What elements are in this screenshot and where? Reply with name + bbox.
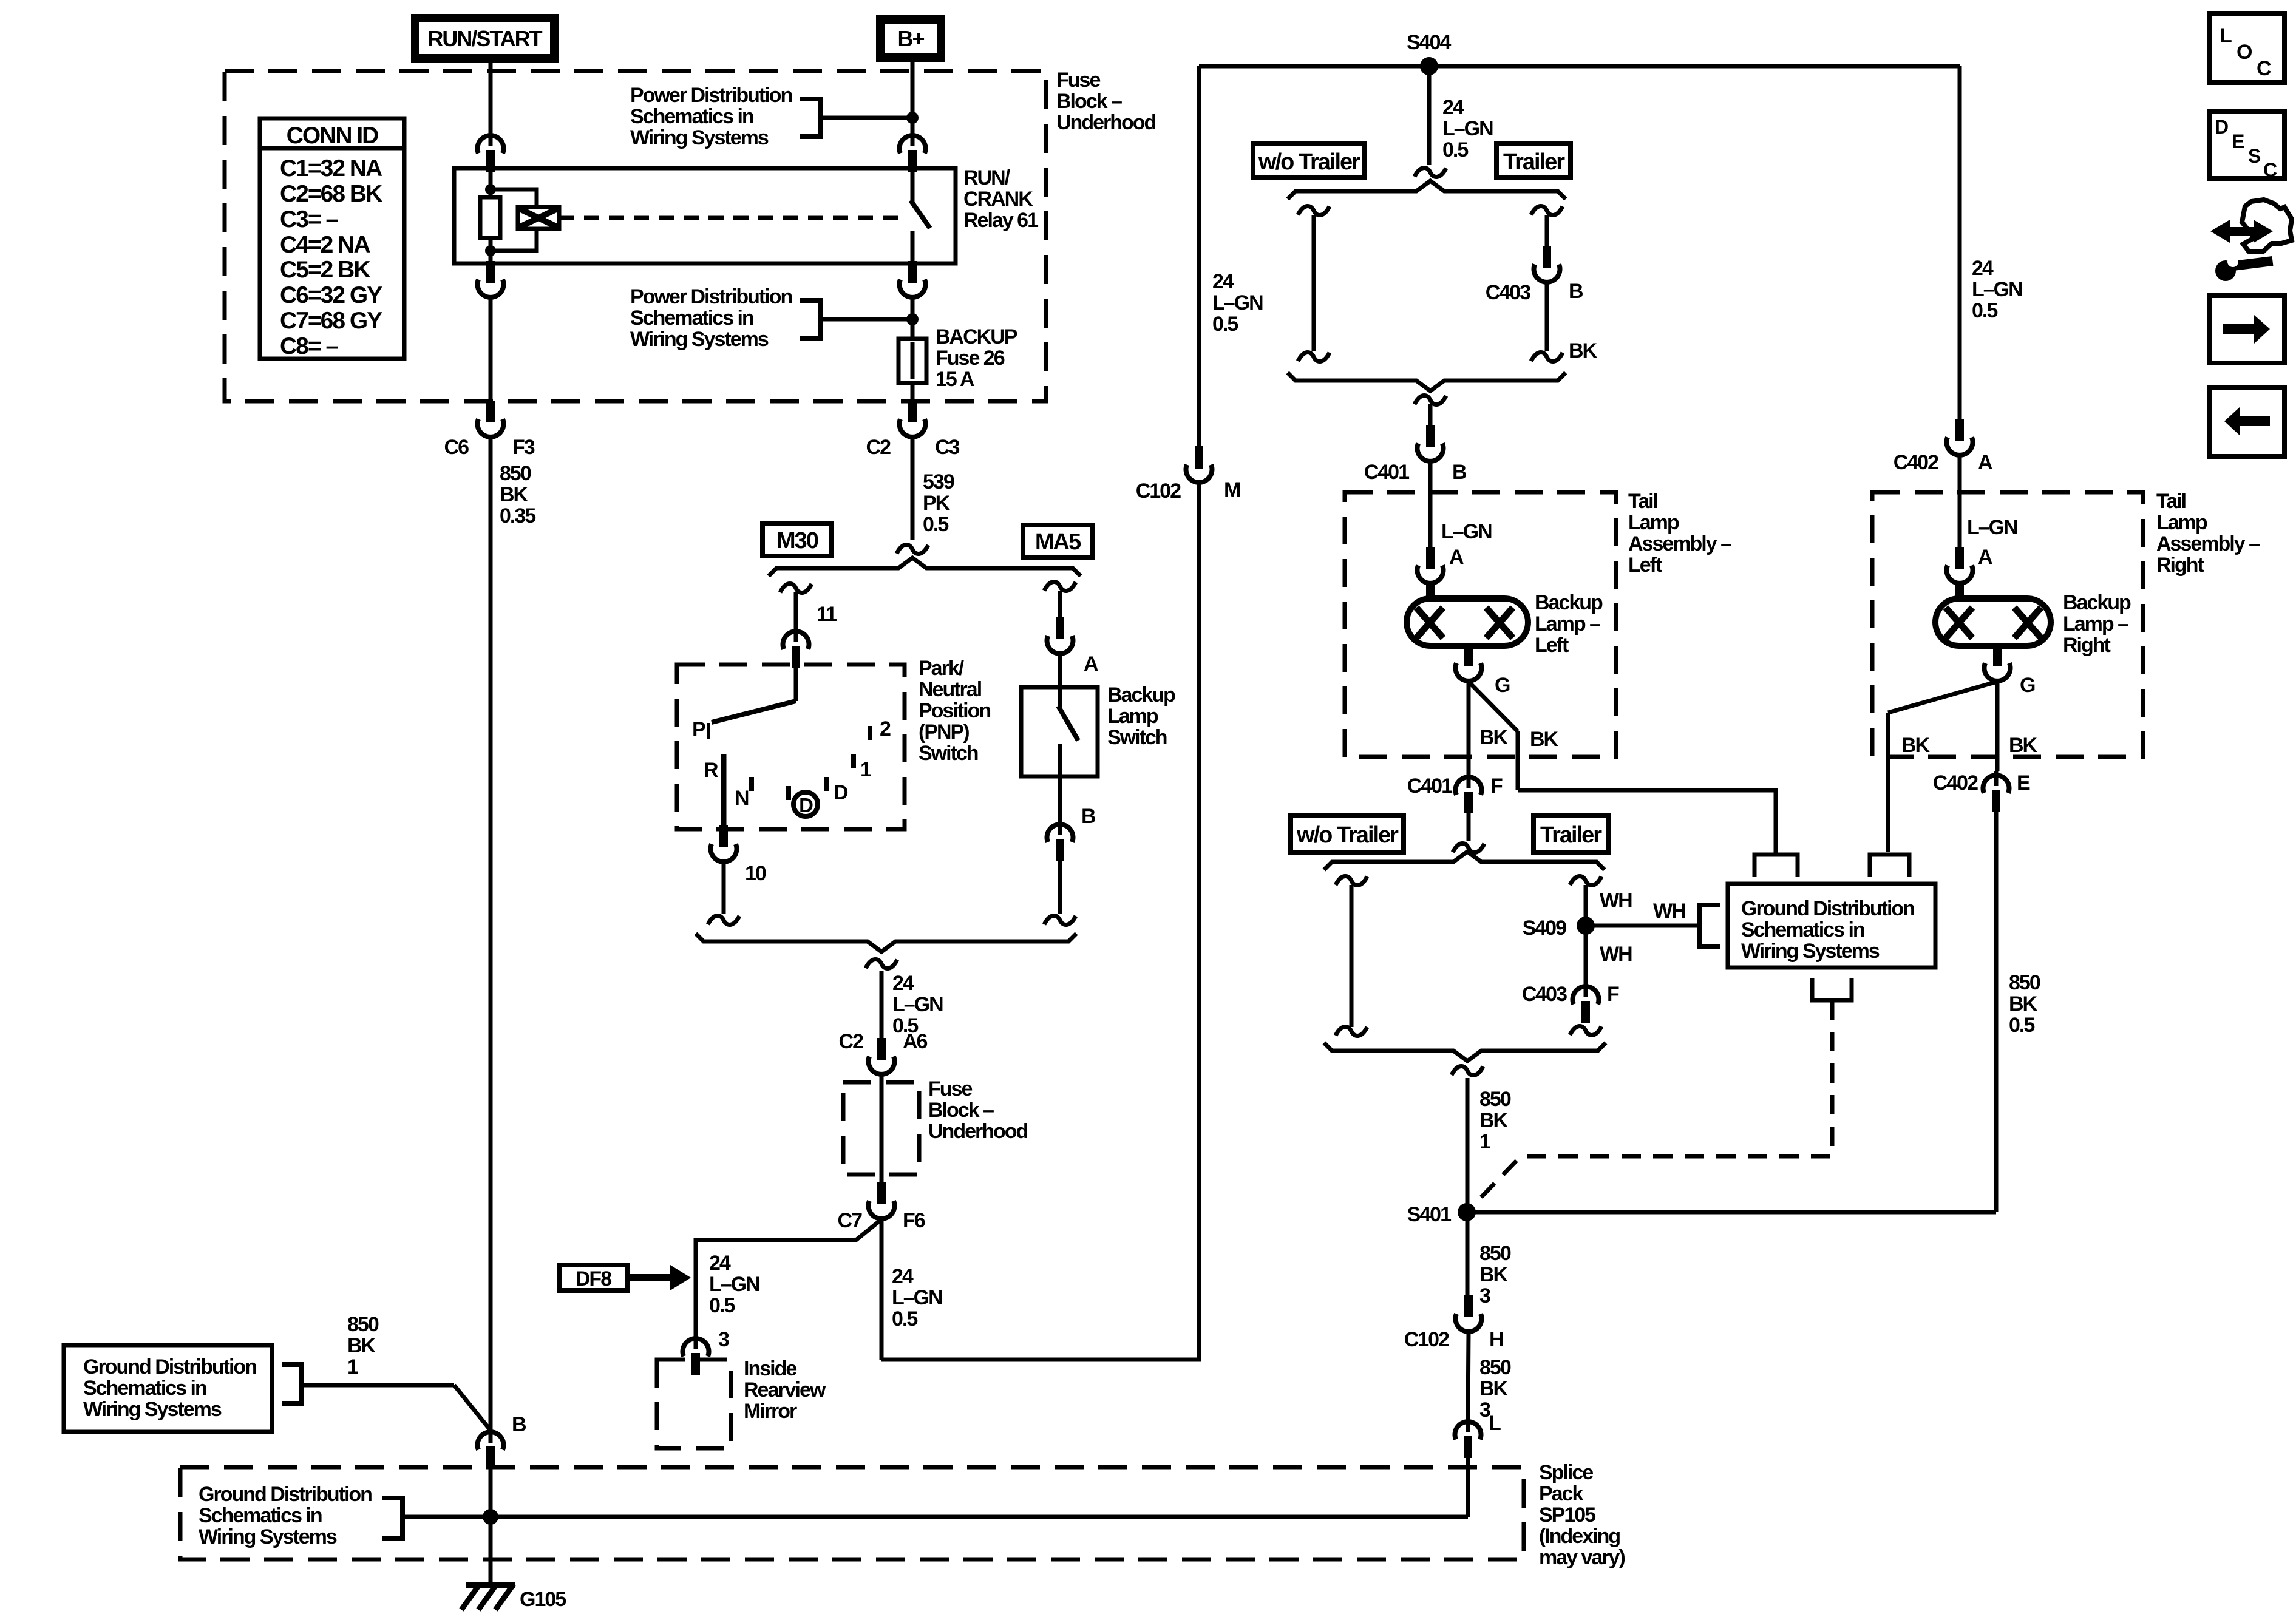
svg-text:A: A xyxy=(1978,451,1992,474)
svg-text:E: E xyxy=(2017,771,2030,795)
svg-text:C3= –: C3= – xyxy=(280,206,338,232)
svg-text:D: D xyxy=(2215,116,2229,138)
svg-text:24: 24 xyxy=(892,972,914,995)
svg-text:BK: BK xyxy=(2009,992,2038,1015)
svg-text:A: A xyxy=(1978,546,1992,569)
svg-text:0.35: 0.35 xyxy=(500,504,535,527)
svg-text:24: 24 xyxy=(1212,270,1234,293)
svg-text:P: P xyxy=(692,718,705,741)
svg-text:C3: C3 xyxy=(935,436,960,459)
svg-text:C6: C6 xyxy=(444,436,469,459)
svg-text:L–GN: L–GN xyxy=(1441,520,1492,543)
svg-text:Lamp –: Lamp – xyxy=(1535,612,1600,636)
svg-text:PK: PK xyxy=(923,492,951,515)
svg-text:Right: Right xyxy=(2156,554,2204,577)
svg-text:A6: A6 xyxy=(903,1030,928,1053)
svg-text:S409: S409 xyxy=(1523,917,1566,940)
svg-text:F: F xyxy=(1607,983,1619,1006)
svg-text:C7=68 GY: C7=68 GY xyxy=(280,308,382,334)
svg-text:E: E xyxy=(2232,131,2244,152)
svg-text:F: F xyxy=(1490,775,1503,798)
svg-text:BK: BK xyxy=(500,483,529,506)
svg-text:(Indexing: (Indexing xyxy=(1539,1525,1620,1548)
svg-text:3: 3 xyxy=(1479,1284,1490,1307)
svg-text:C402: C402 xyxy=(1894,451,1938,474)
svg-text:C403: C403 xyxy=(1522,983,1567,1006)
svg-text:0.5: 0.5 xyxy=(1972,299,1997,322)
svg-text:Right: Right xyxy=(2063,634,2111,657)
svg-text:H: H xyxy=(1489,1328,1503,1351)
svg-text:L–GN: L–GN xyxy=(1967,516,2017,539)
svg-text:Schematics in: Schematics in xyxy=(630,105,753,128)
svg-text:C403: C403 xyxy=(1486,281,1530,304)
svg-text:850: 850 xyxy=(1479,1242,1511,1265)
svg-text:C1=32 NA: C1=32 NA xyxy=(280,155,382,181)
svg-text:L–GN: L–GN xyxy=(1972,278,2022,301)
svg-text:BK: BK xyxy=(1569,339,1598,362)
svg-text:C4=2 NA: C4=2 NA xyxy=(280,232,370,258)
svg-text:L–GN: L–GN xyxy=(892,993,943,1016)
svg-text:C2: C2 xyxy=(839,1030,864,1053)
svg-text:D: D xyxy=(834,781,848,804)
svg-text:850: 850 xyxy=(1479,1356,1511,1379)
svg-text:F3: F3 xyxy=(512,436,535,459)
svg-text:Wiring Systems: Wiring Systems xyxy=(1741,940,1880,963)
svg-text:C7: C7 xyxy=(838,1209,863,1232)
svg-text:L–GN: L–GN xyxy=(1442,117,1493,140)
svg-text:Left: Left xyxy=(1535,634,1569,657)
svg-text:Tail: Tail xyxy=(1628,490,1658,513)
svg-text:C2: C2 xyxy=(866,436,891,459)
svg-text:0.5: 0.5 xyxy=(709,1294,735,1317)
svg-text:Fuse 26: Fuse 26 xyxy=(936,347,1005,370)
svg-text:850: 850 xyxy=(347,1313,379,1336)
svg-text:L–GN: L–GN xyxy=(709,1273,759,1296)
svg-text:Wiring Systems: Wiring Systems xyxy=(83,1398,222,1421)
svg-text:B: B xyxy=(1081,805,1096,828)
svg-text:Ground Distribution: Ground Distribution xyxy=(83,1355,256,1378)
svg-text:Power Distribution: Power Distribution xyxy=(630,285,792,308)
svg-text:WH: WH xyxy=(1600,889,1632,912)
svg-text:B: B xyxy=(1569,280,1583,303)
svg-text:850: 850 xyxy=(500,462,531,485)
svg-text:Wiring Systems: Wiring Systems xyxy=(630,126,769,149)
svg-text:DF8: DF8 xyxy=(576,1267,611,1290)
svg-text:C102: C102 xyxy=(1136,480,1181,503)
svg-text:0.5: 0.5 xyxy=(1212,313,1238,336)
svg-text:Schematics in: Schematics in xyxy=(83,1377,206,1400)
svg-text:15 A: 15 A xyxy=(936,368,974,391)
svg-text:Power Distribution: Power Distribution xyxy=(630,84,792,107)
svg-text:(PNP): (PNP) xyxy=(919,720,969,744)
svg-text:L: L xyxy=(2220,24,2232,47)
svg-text:R: R xyxy=(704,759,718,782)
svg-text:C401: C401 xyxy=(1407,775,1452,798)
svg-text:B: B xyxy=(512,1413,526,1436)
svg-text:CRANK: CRANK xyxy=(963,188,1033,211)
svg-text:Lamp: Lamp xyxy=(2156,511,2207,534)
svg-text:Backup: Backup xyxy=(1535,591,1603,614)
svg-text:O: O xyxy=(2237,41,2252,64)
svg-text:Underhood: Underhood xyxy=(1056,111,1156,134)
svg-text:Splice: Splice xyxy=(1539,1461,1593,1484)
svg-text:BK: BK xyxy=(1479,1263,1509,1286)
svg-text:Backup: Backup xyxy=(1107,683,1175,707)
svg-text:C: C xyxy=(2263,159,2277,181)
svg-text:2: 2 xyxy=(880,717,891,741)
svg-text:0.5: 0.5 xyxy=(892,1307,917,1331)
svg-text:1: 1 xyxy=(1479,1130,1490,1153)
svg-text:Mirror: Mirror xyxy=(744,1400,797,1423)
svg-text:0.5: 0.5 xyxy=(2009,1014,2034,1037)
svg-text:N: N xyxy=(735,787,749,810)
svg-text:C8= –: C8= – xyxy=(280,333,338,359)
svg-text:Underhood: Underhood xyxy=(928,1120,1028,1143)
svg-text:Assembly –: Assembly – xyxy=(1628,532,1731,555)
svg-text:BK: BK xyxy=(1479,1377,1509,1400)
svg-text:may vary): may vary) xyxy=(1539,1546,1625,1569)
svg-text:M30: M30 xyxy=(776,528,818,554)
svg-text:Assembly –: Assembly – xyxy=(2156,532,2260,555)
svg-text:BK: BK xyxy=(1530,728,1559,751)
svg-text:Schematics in: Schematics in xyxy=(1741,918,1864,941)
svg-text:BACKUP: BACKUP xyxy=(936,325,1017,348)
svg-text:Neutral: Neutral xyxy=(919,678,982,701)
svg-text:S401: S401 xyxy=(1407,1203,1451,1226)
svg-text:B+: B+ xyxy=(897,26,924,51)
svg-text:RUN/: RUN/ xyxy=(963,166,1011,189)
svg-text:Switch: Switch xyxy=(1107,726,1167,749)
svg-text:Wiring Systems: Wiring Systems xyxy=(199,1525,337,1548)
svg-text:BK: BK xyxy=(2009,734,2038,757)
svg-text:Backup: Backup xyxy=(2063,591,2131,614)
svg-text:Schematics in: Schematics in xyxy=(630,307,753,330)
svg-text:C5=2 BK: C5=2 BK xyxy=(280,257,370,283)
svg-text:C6=32 GY: C6=32 GY xyxy=(280,282,382,308)
svg-text:Block –: Block – xyxy=(928,1099,994,1122)
svg-text:Inside: Inside xyxy=(744,1357,796,1380)
svg-text:A: A xyxy=(1449,546,1464,569)
svg-text:3: 3 xyxy=(718,1328,729,1351)
svg-text:Pack: Pack xyxy=(1539,1482,1583,1505)
svg-text:M: M xyxy=(1224,478,1240,501)
svg-text:Trailer: Trailer xyxy=(1540,822,1602,848)
svg-text:Wiring Systems: Wiring Systems xyxy=(630,328,769,351)
svg-text:B: B xyxy=(1452,461,1467,484)
svg-text:Lamp: Lamp xyxy=(1628,511,1679,534)
svg-text:L: L xyxy=(1489,1412,1501,1435)
svg-text:G105: G105 xyxy=(520,1588,566,1611)
svg-text:w/o Trailer: w/o Trailer xyxy=(1296,822,1399,848)
svg-text:Schematics in: Schematics in xyxy=(199,1504,322,1527)
svg-text:L–GN: L–GN xyxy=(1212,291,1263,314)
svg-text:24: 24 xyxy=(892,1265,914,1288)
svg-text:1: 1 xyxy=(347,1355,358,1378)
svg-text:Fuse: Fuse xyxy=(1056,69,1100,92)
svg-text:850: 850 xyxy=(1479,1088,1511,1111)
svg-text:Rearview: Rearview xyxy=(744,1378,826,1402)
svg-text:24: 24 xyxy=(709,1252,731,1275)
svg-text:RUN/START: RUN/START xyxy=(427,26,542,51)
svg-text:MA5: MA5 xyxy=(1035,529,1081,555)
svg-text:0.5: 0.5 xyxy=(923,513,948,536)
svg-text:24: 24 xyxy=(1972,257,1994,280)
svg-text:Switch: Switch xyxy=(919,742,978,765)
svg-text:G: G xyxy=(1495,674,1510,697)
svg-text:BK: BK xyxy=(1479,726,1509,749)
svg-text:1: 1 xyxy=(860,758,871,781)
svg-text:F6: F6 xyxy=(903,1209,925,1232)
svg-text:WH: WH xyxy=(1600,943,1632,966)
svg-text:10: 10 xyxy=(745,862,766,885)
svg-text:850: 850 xyxy=(2009,971,2040,994)
svg-text:Ground Distribution: Ground Distribution xyxy=(1741,897,1914,920)
svg-text:C102: C102 xyxy=(1404,1328,1449,1351)
svg-text:539: 539 xyxy=(923,470,954,493)
svg-text:SP105: SP105 xyxy=(1539,1503,1595,1527)
svg-text:w/o Trailer: w/o Trailer xyxy=(1258,149,1360,175)
svg-text:C402: C402 xyxy=(1933,771,1978,795)
svg-text:0.5: 0.5 xyxy=(1442,138,1468,161)
svg-text:Block –: Block – xyxy=(1056,90,1122,113)
svg-text:BK: BK xyxy=(1901,734,1931,757)
svg-text:C: C xyxy=(2257,57,2272,80)
svg-text:S404: S404 xyxy=(1407,31,1451,54)
svg-text:BK: BK xyxy=(347,1334,376,1357)
svg-text:24: 24 xyxy=(1442,96,1464,119)
svg-text:Ground Distribution: Ground Distribution xyxy=(199,1483,372,1506)
svg-text:S: S xyxy=(2248,145,2261,167)
svg-text:L–GN: L–GN xyxy=(892,1286,942,1309)
svg-text:Lamp –: Lamp – xyxy=(2063,612,2128,636)
svg-text:Trailer: Trailer xyxy=(1503,149,1565,175)
svg-text:A: A xyxy=(1084,653,1098,676)
svg-text:Lamp: Lamp xyxy=(1107,705,1158,728)
svg-text:Position: Position xyxy=(919,699,990,722)
svg-text:C2=68 BK: C2=68 BK xyxy=(280,181,382,207)
svg-text:CONN ID: CONN ID xyxy=(287,123,379,149)
svg-text:BK: BK xyxy=(1479,1109,1509,1132)
svg-text:11: 11 xyxy=(817,603,837,626)
svg-text:C401: C401 xyxy=(1364,461,1409,484)
svg-text:Tail: Tail xyxy=(2156,490,2186,513)
svg-text:Fuse: Fuse xyxy=(928,1077,972,1100)
svg-text:Relay 61: Relay 61 xyxy=(963,209,1038,232)
svg-text:D: D xyxy=(799,794,813,816)
svg-text:Park/: Park/ xyxy=(919,657,965,680)
svg-text:G: G xyxy=(2020,674,2035,697)
svg-text:WH: WH xyxy=(1653,900,1685,923)
svg-text:Left: Left xyxy=(1628,554,1662,577)
